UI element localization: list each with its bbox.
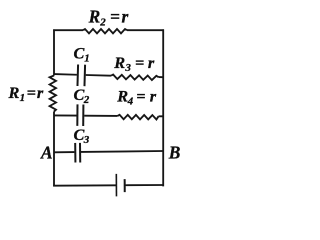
wire row1 right (R3 to rail) (158, 76, 163, 78)
wire left rail upper (53, 29, 55, 75)
resistor R1 (50, 76, 56, 112)
resistor R2 (83, 29, 127, 33)
svg-text:R4=r: R4=r (116, 86, 157, 107)
capacitor C1 (77, 64, 85, 86)
wire row3 right (C3 to B) (81, 150, 163, 153)
wire top-left segment (53, 29, 83, 31)
resistor R4 (117, 115, 158, 120)
svg-text:R3=r: R3=r (113, 53, 155, 74)
wire left rail lower (53, 112, 55, 187)
svg-text:C2: C2 (74, 85, 90, 106)
wire bottom-right segment (125, 184, 164, 186)
svg-text:B: B (168, 142, 181, 162)
wire top-right segment (127, 29, 164, 31)
wire row2 right (R4 to rail) (158, 115, 163, 117)
wire row2 left (rail to C2) (54, 114, 76, 116)
node A junction / wire row3 left (A to C3) (54, 151, 74, 153)
battery positive plate (long) (115, 174, 117, 196)
wire row2 middle (C2 to R4) (84, 115, 117, 117)
wire row1 left (rail to C1) (54, 73, 77, 76)
svg-text:R1=r: R1=r (8, 83, 44, 104)
svg-text:A: A (40, 142, 53, 162)
svg-text:C1: C1 (74, 43, 90, 64)
capacitor C3 (75, 143, 80, 163)
battery negative plate (short) (124, 179, 126, 192)
resistor R3 (111, 75, 159, 81)
svg-text:R2=r: R2=r (88, 6, 129, 28)
capacitor C2 (77, 104, 83, 126)
wire row1 middle (C1 to R3) (86, 74, 111, 77)
svg-text:C3: C3 (74, 125, 90, 146)
wire right rail (162, 29, 164, 186)
wire bottom-left segment (53, 184, 116, 186)
